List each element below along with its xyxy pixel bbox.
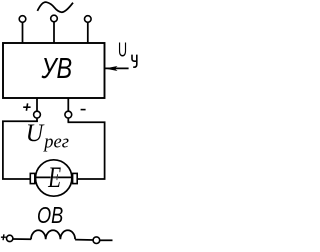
AC source symbol [37, 2, 73, 12]
brush left [30, 173, 35, 183]
wire [53, 22, 55, 43]
terminal 1 [19, 16, 26, 23]
svg-text:УВ: УВ [41, 51, 73, 84]
block UV (controlled rectifier) [3, 43, 105, 98]
label − [81, 109, 86, 111]
svg-text:рег: рег [42, 133, 69, 153]
wire (left elbow down to armature) [3, 121, 38, 179]
terminal (field −) [93, 237, 100, 244]
wire [75, 239, 93, 241]
svg-text:U: U [118, 38, 127, 61]
wire [67, 118, 69, 122]
terminal 3 [85, 16, 92, 23]
label + (field) [1, 234, 6, 240]
wire [13, 238, 31, 240]
svg-text:E: E [47, 160, 61, 193]
svg-text:ОВ: ОВ [37, 203, 63, 229]
label + [23, 103, 30, 110]
wire [87, 22, 89, 43]
wire [100, 239, 113, 241]
terminal + [34, 111, 41, 118]
wire (right elbow down to armature) [68, 122, 105, 179]
wire [36, 98, 38, 111]
armature chord [36, 176, 72, 178]
terminal − [65, 111, 72, 118]
wire [67, 98, 69, 111]
motor armature circle [36, 160, 72, 196]
wire [36, 118, 38, 122]
svg-text:U: U [26, 120, 45, 148]
label у (subscript) [132, 55, 137, 68]
terminal 2 [51, 15, 58, 22]
control input arrowhead [105, 66, 118, 71]
field winding OV (inductor) [31, 230, 75, 239]
wire [22, 22, 24, 43]
control input arrow line [105, 67, 129, 69]
brush right [73, 173, 78, 183]
terminal (field +) [7, 235, 13, 241]
